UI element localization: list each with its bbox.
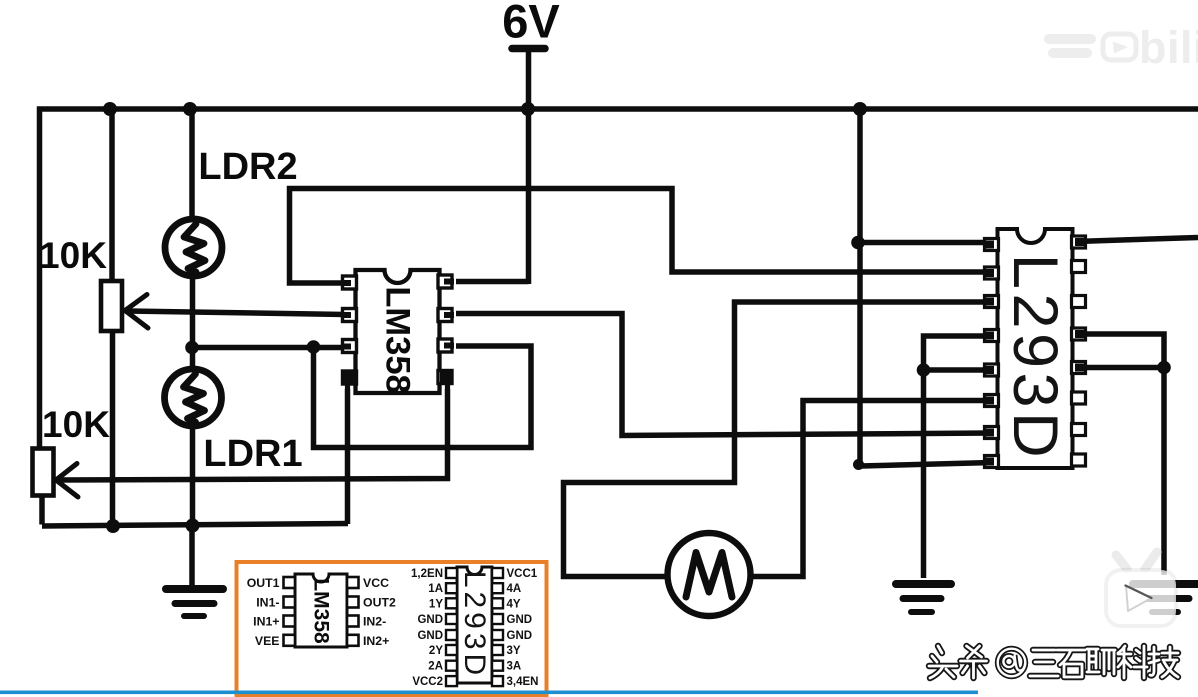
- node bus / 6V junction: [521, 102, 535, 116]
- wire LM358 pin8 VCC to 6V supply: [456, 52, 529, 284]
- potentiometer R1 10K body: [101, 281, 122, 331]
- node ground rail / pot R1 junction: [106, 519, 120, 533]
- wire +6V top bus: [37, 106, 1198, 112]
- wire L293D pin4 GND down to ground symbol: [924, 336, 993, 578]
- svg-text:LDR2: LDR2: [198, 146, 297, 188]
- svg-text:L293D: L293D: [1000, 254, 1070, 462]
- ground symbol GND1 (left): [166, 589, 223, 616]
- legend driver L293D body: [457, 567, 492, 683]
- wire L293D pin3 1Y to motor left terminal: [564, 302, 993, 577]
- motor driver U2 pin stubs: [983, 242, 1087, 462]
- node bus / LDR2 junction: [183, 102, 197, 116]
- svg-text:LM358: LM358: [379, 286, 417, 393]
- svg-text:1A: 1A: [428, 583, 443, 595]
- progress bar blue: [0, 691, 978, 695]
- svg-text:GND: GND: [507, 614, 533, 626]
- watermark bilibili top right: [1044, 22, 1198, 73]
- wire LM358 pin1 OUT1 to L293D pin2 1A: [290, 189, 993, 284]
- photoresistor LDR2: [165, 219, 222, 276]
- motor driver U2 pins left (1-8): [985, 239, 999, 468]
- wire pot R2 bottom to ground rail: [39, 494, 45, 525]
- ground symbol GND3 (right, L293D pins 12/13): [1133, 584, 1197, 612]
- svg-text:GND: GND: [417, 630, 443, 642]
- svg-text:GND: GND: [417, 614, 443, 626]
- wire pot R1 wiper to LM358 pin2 IN1-: [126, 311, 345, 315]
- svg-text:bilibili: bilibili: [1139, 22, 1198, 73]
- potentiometer R2 10K body: [33, 449, 54, 496]
- svg-text:L293D: L293D: [458, 571, 491, 679]
- node supply drop / 1,2EN junction: [851, 236, 865, 250]
- svg-text:3Y: 3Y: [507, 645, 521, 657]
- motor driver U2 pins right (9-16): [1072, 236, 1086, 466]
- wire node to L293D pin5 GND: [924, 367, 993, 373]
- svg-text:6V: 6V: [502, 0, 560, 48]
- wire left branch from bus down to pot R2: [37, 107, 43, 451]
- wire pot R1 bottom to ground rail: [110, 329, 116, 527]
- wire node to L293D pin1 1,2EN: [858, 240, 992, 246]
- node bus / L293D supply drop junction: [853, 102, 867, 116]
- wire bus down to LDR2 top: [189, 107, 195, 225]
- node bus / pot R1 junction: [103, 102, 117, 116]
- wire LDR1 bottom to ground rail: [190, 422, 196, 527]
- svg-text:2Y: 2Y: [429, 645, 443, 657]
- legend op-amp LM358 body: [295, 574, 347, 647]
- svg-text:4Y: 4Y: [507, 598, 521, 610]
- svg-text:LM358: LM358: [310, 578, 333, 644]
- wire L293D pin12 GND to node: [1076, 365, 1164, 371]
- svg-text:IN2+: IN2+: [363, 634, 389, 648]
- node VCC2 corner junction: [853, 459, 864, 470]
- photoresistor LDR1: [165, 369, 222, 426]
- wire ground rail to ground symbol stem: [189, 525, 195, 586]
- svg-text:2A: 2A: [428, 661, 443, 673]
- legend L293D pin names left: [411, 568, 443, 688]
- legend LM358 pin names left: [247, 576, 280, 648]
- svg-text:LDR1: LDR1: [203, 433, 302, 475]
- svg-text:GND: GND: [507, 630, 533, 642]
- wire LM358 pin6 IN2- loop to node on IN1+ line: [314, 345, 532, 448]
- svg-text:4A: 4A: [507, 583, 522, 595]
- svg-text:OUT2: OUT2: [363, 596, 396, 610]
- wire LM358 pin7 OUT2 to L293D pin7 2A: [456, 314, 992, 436]
- wire LM358 pin5 IN2+ to pot R2 wiper: [58, 389, 448, 480]
- op-amp U1 pins right (5-8): [438, 275, 452, 384]
- watermark text 头条 @三石聊科技: [929, 646, 1178, 678]
- wire L293D pin6 2Y to motor right terminal: [748, 401, 992, 577]
- legend L293D pins left: [446, 568, 457, 686]
- wire node junction to LM358 pin3 IN1+: [190, 345, 345, 351]
- motor M1: [668, 533, 751, 616]
- node IN1+ / IN2- tie junction: [307, 340, 321, 354]
- svg-text:IN2-: IN2-: [363, 615, 386, 629]
- svg-text:OUT1: OUT1: [247, 576, 280, 590]
- node GND pins 4/5 junction: [917, 363, 931, 377]
- node GND pins 12/13 junction: [1157, 361, 1171, 375]
- node ground rail / LDR1 junction: [186, 519, 200, 533]
- op-amp U1 LM358 body: [356, 270, 440, 393]
- op-amp U1 pins left (1-4): [343, 276, 357, 384]
- legend L293D pins right: [492, 568, 503, 686]
- svg-text:VCC: VCC: [363, 576, 389, 590]
- ground symbol GND2 (middle, L293D pins 4/5): [896, 584, 951, 612]
- svg-text:10K: 10K: [39, 235, 107, 276]
- legend L293D pin names right: [507, 568, 539, 688]
- svg-text:1,2EN: 1,2EN: [411, 568, 443, 580]
- svg-text:IN1-: IN1-: [256, 596, 279, 610]
- op-amp U1 pin stubs: [341, 282, 454, 390]
- svg-text:3A: 3A: [507, 661, 522, 673]
- svg-text:VCC2: VCC2: [412, 676, 443, 688]
- legend LM358 pins right: [347, 577, 359, 646]
- watermark bilibili tv logo bottom right: [1106, 552, 1176, 626]
- wire ground rail bottom left: [42, 524, 348, 527]
- motor driver U2 L293D body: [998, 229, 1073, 468]
- svg-text:1Y: 1Y: [429, 598, 443, 610]
- svg-text:3,4EN: 3,4EN: [507, 676, 539, 688]
- legend LM358 pin names right: [363, 576, 396, 648]
- wire bus down to pot R1 top: [109, 107, 115, 284]
- potentiometer R1 wiper arrow: [125, 295, 148, 329]
- svg-text:10K: 10K: [42, 404, 110, 445]
- legend LM358 pins left: [284, 577, 296, 646]
- svg-text:VCC1: VCC1: [507, 568, 538, 580]
- wire LDR2 bottom to LDR1 top: [190, 272, 196, 373]
- svg-text:VEE: VEE: [255, 634, 280, 648]
- svg-text:IN1+: IN1+: [253, 615, 279, 629]
- potentiometer R2 wiper arrow: [56, 464, 78, 498]
- wire L293D pin16 VCC1 to right edge: [1076, 238, 1198, 242]
- legend pinout box (orange frame): [237, 562, 547, 696]
- wire L293D pin13 GND to right ground: [1076, 334, 1164, 575]
- wire bus down to L293D pin8 VCC2: [860, 107, 992, 467]
- supply bar 6V: [512, 45, 545, 53]
- node LDR divider / IN1+ junction: [185, 341, 199, 355]
- wire LM358 pin4 VEE down to ground rail: [345, 389, 351, 524]
